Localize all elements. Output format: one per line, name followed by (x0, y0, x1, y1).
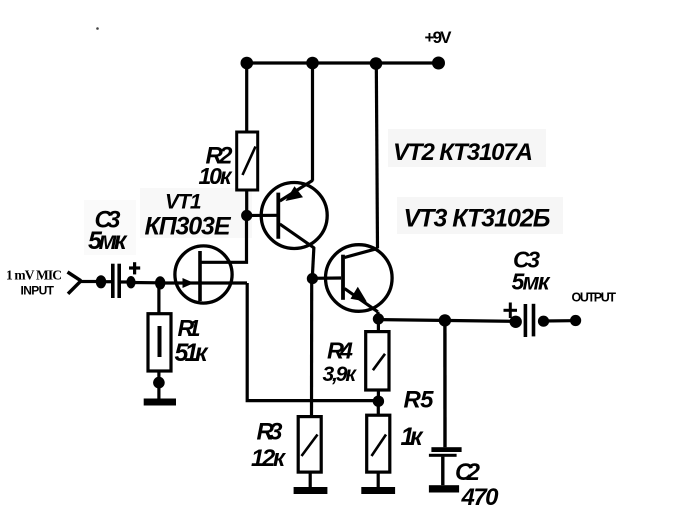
svg-text:OUTPUT: OUTPUT (572, 291, 617, 305)
wire R2 to node A (245, 190, 248, 215)
svg-text:1к: 1к (401, 423, 424, 451)
wire VT3 emitter to node E (376, 312, 380, 316)
node rail junction 1 (241, 57, 254, 70)
node rail junction 2 (306, 57, 319, 70)
wire to output terminal (544, 319, 572, 322)
svg-text:VT2 КТ3107А: VT2 КТ3107А (393, 139, 533, 166)
svg-text:R5: R5 (404, 387, 435, 414)
wire node A to VT2 base (247, 214, 278, 217)
node D (VT2 collector / VT3 base / R3) (307, 273, 318, 284)
wire node D to VT3 base (312, 276, 341, 279)
wire C3 to node B (121, 280, 129, 283)
wire node C to R1 (157, 283, 160, 314)
scan smudge behind input cap label (84, 200, 136, 255)
node E (VT3 emitter / R4 / output) (373, 313, 384, 324)
node +9V terminal (432, 57, 445, 70)
wire R1 to ground (157, 371, 160, 399)
wire VT1 drain (200, 220, 247, 262)
node C (R1 / gate) (155, 276, 165, 289)
svg-text:VT1: VT1 (165, 191, 202, 214)
wire rail to R2 (245, 63, 248, 132)
svg-text:R4: R4 (327, 338, 353, 364)
wire node G to R5 (377, 401, 380, 415)
node B right of C3 (126, 276, 135, 288)
node rail junction 3 (370, 57, 383, 70)
wire VT3 collector to rail (376, 63, 377, 248)
svg-text:R3: R3 (257, 419, 284, 446)
svg-text:5мк: 5мк (88, 227, 128, 255)
wire node D to R3 (310, 279, 313, 417)
svg-text:3,9к: 3,9к (323, 363, 358, 386)
wire node F to C2 (443, 320, 447, 447)
wire node B to node C (131, 281, 160, 284)
resistor R3 (298, 417, 321, 473)
wire node E to R4 (377, 319, 380, 332)
svg-text:1 mV MIC: 1 mV MIC (6, 268, 62, 283)
wire to C3 (105, 280, 111, 283)
wire +9V power rail (246, 61, 438, 64)
resistor R4 (366, 332, 389, 390)
node input left of C3 (96, 275, 106, 288)
wire R4 to node G (377, 390, 380, 400)
svg-text:+9V: +9V (425, 28, 453, 47)
scan smudge behind VT3 label (397, 197, 563, 234)
wire R3 to ground (309, 472, 312, 487)
wire node E to node F (378, 320, 512, 322)
scan smudge behind VT2 label (388, 129, 546, 167)
transistor VT2 (261, 180, 327, 248)
wire VT2 collector down (313, 247, 314, 274)
svg-text:10к: 10к (199, 163, 233, 189)
wire VT1 source down (247, 283, 378, 401)
transistor VT3 (326, 245, 393, 312)
node below R1 (153, 377, 165, 389)
ground R1 (144, 399, 176, 406)
transistor VT1 (165, 246, 247, 303)
scan smudge behind KP303E label (140, 188, 252, 238)
svg-text:12к: 12к (251, 445, 287, 472)
svg-text:INPUT: INPUT (21, 284, 55, 298)
polarity + of output C3 (504, 303, 518, 319)
node output terminal (570, 315, 581, 326)
svg-text:51к: 51к (175, 339, 209, 367)
svg-text:VT3 КТ3102Б: VT3 КТ3102Б (404, 205, 551, 233)
resistor R2 (237, 132, 258, 190)
svg-text:5мк: 5мк (512, 269, 551, 295)
ground R3 (294, 487, 328, 494)
node right of output C3 (538, 316, 549, 327)
svg-text:КП303Е: КП303Е (145, 213, 232, 241)
capacitor C3 input (113, 264, 119, 298)
capacitor C2 (429, 447, 462, 485)
svg-text:470: 470 (461, 484, 500, 511)
capacitor C3 output (525, 304, 533, 337)
node left of output C3 (510, 316, 522, 328)
svg-text:С2: С2 (455, 459, 481, 486)
resistor R1 (148, 314, 171, 371)
wire VT2 emitter to rail (311, 63, 314, 181)
wire R5 to ground (377, 472, 380, 487)
input connector arrow (68, 272, 97, 294)
node A (R2 / VT1 drain / VT2 base) (241, 210, 252, 221)
scan speck (96, 27, 99, 30)
svg-text:R1: R1 (178, 315, 201, 341)
ground R5 (361, 487, 395, 494)
ground C2 (429, 485, 459, 492)
node G (R4 / R5 / feedback) (373, 396, 384, 407)
polarity + of input C3 (129, 262, 140, 274)
node F (C2 branch) (439, 314, 451, 326)
resistor R5 (367, 415, 390, 472)
